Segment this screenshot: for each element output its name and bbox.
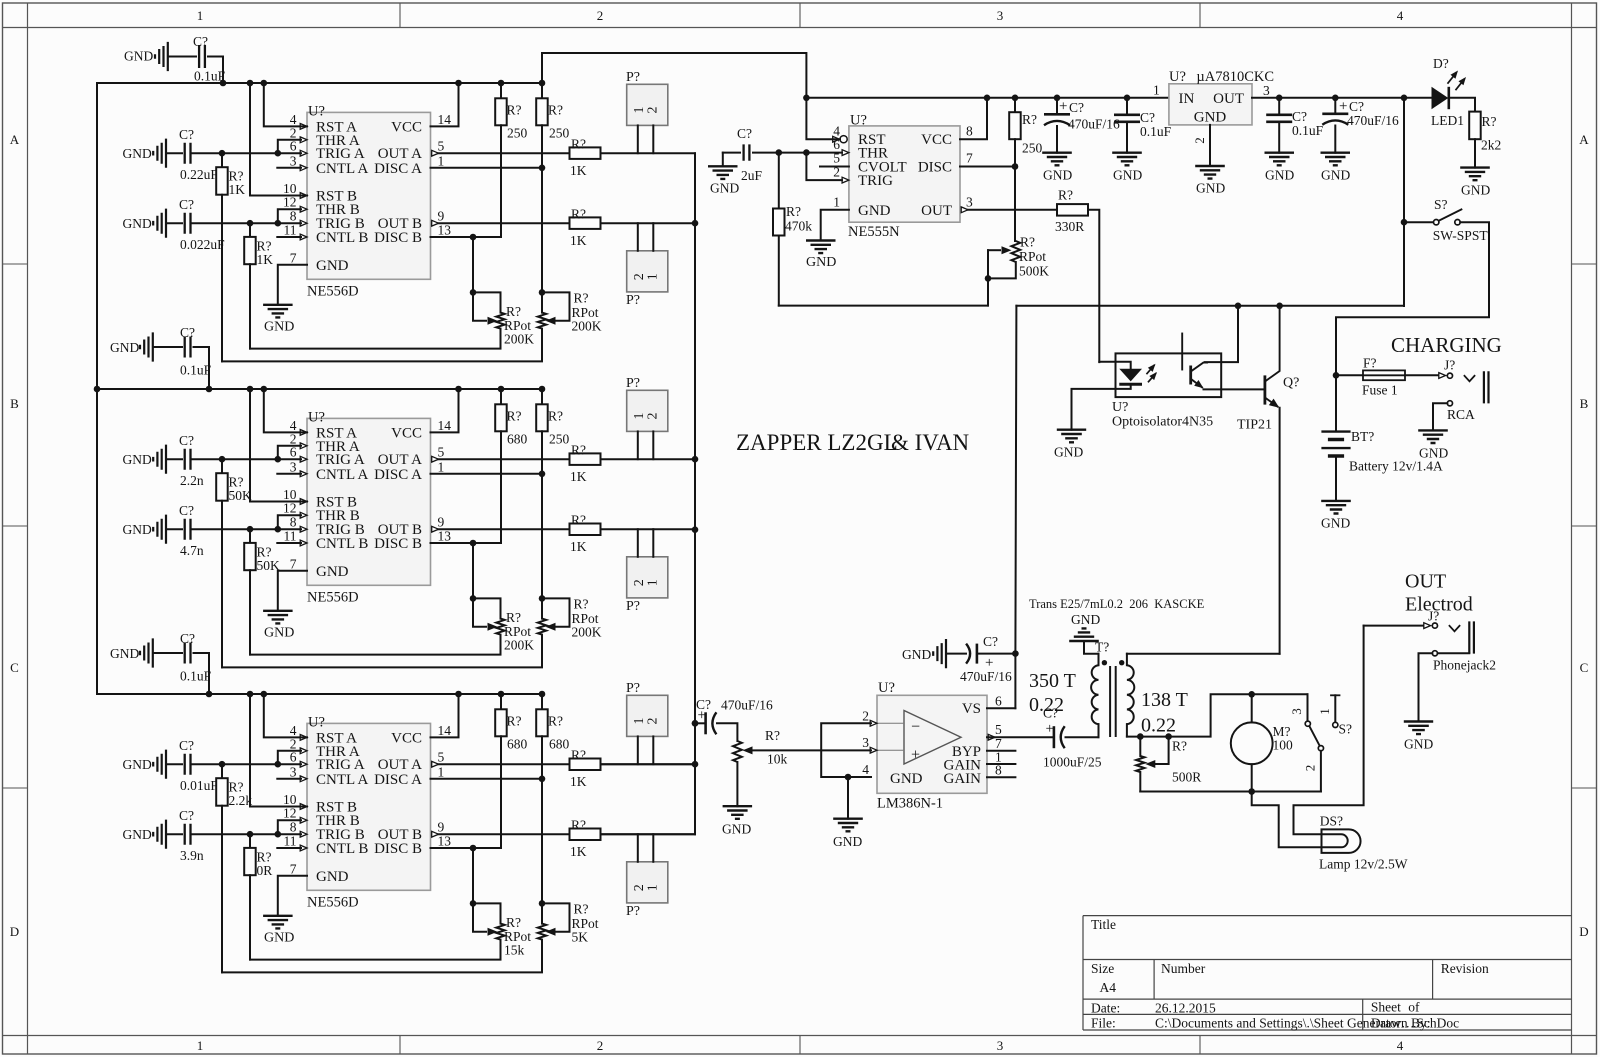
svg-text:U?: U? xyxy=(1112,400,1128,415)
svg-text:11: 11 xyxy=(284,834,297,849)
stub CNTL B (section 1) xyxy=(277,236,301,238)
svg-text:5: 5 xyxy=(438,139,445,154)
svg-text:GND: GND xyxy=(316,258,349,274)
svg-text:R?: R? xyxy=(571,818,586,833)
svg-text:138 T: 138 T xyxy=(1141,689,1188,711)
svg-text:R?: R? xyxy=(574,290,589,305)
svg-text:14: 14 xyxy=(438,112,452,127)
stub CNTL A (section 3) xyxy=(277,778,301,780)
svg-text:2.2n: 2.2n xyxy=(180,473,204,488)
resistor R? 50K from TRIG A (section 2) xyxy=(221,459,223,473)
connector P? lower (section 3) xyxy=(627,862,668,903)
left VCC trunk wire xyxy=(96,83,98,694)
wire regulator output rail xyxy=(1252,97,1432,99)
svg-text:NE556D: NE556D xyxy=(307,895,359,911)
svg-text:1: 1 xyxy=(646,579,661,586)
pot feed from DISC B (section 2) xyxy=(472,543,474,598)
svg-text:C?: C? xyxy=(983,634,998,649)
svg-text:GND: GND xyxy=(123,216,152,231)
svg-text:GND: GND xyxy=(722,822,751,837)
connector P? lower (section 2) xyxy=(627,557,668,598)
capacitor C? 470uF/16 input coupling xyxy=(692,720,699,727)
wire pot bottom to motor return xyxy=(1140,791,1321,793)
svg-text:J?: J? xyxy=(1444,358,1455,373)
wire THR A hook to TRIG A (section 2) xyxy=(278,446,301,459)
ground symbol IC (section 3) xyxy=(263,916,293,929)
wire timing net 470k to pot xyxy=(779,305,988,307)
svg-text:GAIN: GAIN xyxy=(944,771,982,787)
svg-text:8: 8 xyxy=(290,820,297,835)
svg-text:500K: 500K xyxy=(1019,264,1049,279)
wire DISC B (section 1) xyxy=(431,236,502,238)
wire secondary bottom xyxy=(1127,694,1308,736)
svg-text:Q?: Q? xyxy=(1283,376,1299,391)
svg-text:R?: R? xyxy=(574,901,589,916)
fuse F? Fuse 1 xyxy=(1333,372,1340,379)
resistor R? 2.2k from TRIG A (section 3) xyxy=(221,764,223,778)
stub CNTL A (section 1) xyxy=(277,167,301,169)
svg-text:OUT: OUT xyxy=(1213,91,1244,107)
svg-text:1: 1 xyxy=(197,8,204,23)
svg-text:1K: 1K xyxy=(570,163,587,178)
svg-text:500R: 500R xyxy=(1172,770,1201,785)
svg-text:R?: R? xyxy=(507,713,522,728)
svg-text:C?: C? xyxy=(1140,110,1155,125)
svg-text:GND: GND xyxy=(1043,168,1072,183)
wire TRIG A input (section 3) xyxy=(193,763,302,765)
svg-text:26.12.2015: 26.12.2015 xyxy=(1155,1001,1216,1016)
svg-text:NE556D: NE556D xyxy=(307,590,359,606)
svg-text:5K: 5K xyxy=(572,930,589,945)
svg-text:DISC B: DISC B xyxy=(374,841,422,857)
opamp triangle xyxy=(904,711,961,765)
opto phototransistor xyxy=(1189,366,1192,385)
svg-text:GND: GND xyxy=(264,930,294,945)
ground symbol LM386 xyxy=(833,819,863,832)
wire mix bus to OUT A3 xyxy=(601,763,696,765)
svg-text:GND: GND xyxy=(806,255,836,270)
svg-text:12: 12 xyxy=(283,195,297,210)
svg-text:R?: R? xyxy=(571,207,586,222)
wire switch to charger xyxy=(1336,222,1489,375)
svg-text:11: 11 xyxy=(284,529,297,544)
wire DISC A (section 3) xyxy=(431,778,543,780)
svg-text:680: 680 xyxy=(507,431,528,446)
svg-text:GND: GND xyxy=(1404,737,1433,752)
svg-text:VCC: VCC xyxy=(391,119,422,135)
svg-text:GND: GND xyxy=(110,340,139,355)
transformer secondary winding 138T xyxy=(1126,654,1128,666)
svg-text:Size: Size xyxy=(1091,961,1114,976)
svg-text:2: 2 xyxy=(646,107,661,114)
potentiometer R? RPot 200K (section 1) xyxy=(473,292,501,312)
svg-text:12: 12 xyxy=(283,806,297,821)
wire DISC A (section 1) xyxy=(431,167,543,169)
RCA sleeve contact to GND xyxy=(1447,401,1452,406)
wire LM386 VS pin 6 xyxy=(987,707,1015,709)
svg-text:VCC: VCC xyxy=(391,425,422,441)
resistor R? 1K on OUT A (section 2) xyxy=(570,453,601,465)
svg-text:GND: GND xyxy=(902,647,931,662)
svg-text:GND: GND xyxy=(124,49,153,64)
lamp DS? 12v/2.5W xyxy=(1322,829,1361,853)
svg-text:7: 7 xyxy=(290,250,297,265)
svg-text:Lamp 12v/2.5W: Lamp 12v/2.5W xyxy=(1319,857,1408,872)
svg-text:2uF: 2uF xyxy=(741,168,763,183)
connector P? upper (section 3) xyxy=(627,695,668,736)
ground symbol battery xyxy=(1321,501,1351,514)
svg-text:B: B xyxy=(10,396,19,411)
potentiometer R? RPot 200K (section 2) xyxy=(542,598,570,626)
capacitor C? 470uF/16 NE555 rail xyxy=(1056,98,1058,113)
svg-text:C?: C? xyxy=(179,197,194,212)
svg-text:TRIG: TRIG xyxy=(858,173,893,189)
svg-text:9: 9 xyxy=(438,209,445,224)
svg-text:1K: 1K xyxy=(570,774,587,789)
svg-text:GND: GND xyxy=(1461,183,1490,198)
svg-text:10k: 10k xyxy=(767,752,788,767)
svg-text:C?: C? xyxy=(179,127,194,142)
svg-text:R?: R? xyxy=(548,713,563,728)
wire DISC B (section 3) xyxy=(431,847,502,849)
svg-text:0.1uF: 0.1uF xyxy=(1140,124,1172,139)
wire OUT A (section 3) xyxy=(439,763,570,765)
wire VCC pin 8 xyxy=(960,98,987,139)
svg-text:8: 8 xyxy=(966,124,973,139)
ground symbol IC (section 2) xyxy=(263,611,293,624)
svg-text:C: C xyxy=(10,660,19,675)
svg-text:R?: R? xyxy=(1482,114,1497,129)
connector P? upper pins (section 3) xyxy=(637,736,639,764)
svg-text:S?: S? xyxy=(1434,197,1448,212)
svg-text:GND: GND xyxy=(1054,445,1083,460)
svg-text:GND: GND xyxy=(123,452,152,467)
svg-text:3: 3 xyxy=(290,153,297,168)
svg-text:250: 250 xyxy=(549,431,570,446)
svg-text:Number: Number xyxy=(1161,961,1206,976)
svg-text:470k: 470k xyxy=(785,219,812,234)
svg-text:2: 2 xyxy=(1303,765,1318,772)
svg-text:8: 8 xyxy=(290,209,297,224)
svg-text:BT?: BT? xyxy=(1351,429,1374,444)
svg-text:R?: R? xyxy=(571,748,586,763)
svg-text:.SchDoc: .SchDoc xyxy=(1413,1016,1459,1031)
svg-text:GND: GND xyxy=(316,869,349,885)
wire mix bus corner to OUT B3 xyxy=(601,833,696,835)
resistor R? 680 pullup (section 3) xyxy=(541,694,543,709)
wire RST to rail xyxy=(806,98,840,139)
svg-text:Revision: Revision xyxy=(1441,961,1489,976)
wire 330R to opto LED xyxy=(1090,210,1100,362)
svg-text:GND: GND xyxy=(1265,168,1294,183)
svg-text:14: 14 xyxy=(438,723,452,738)
svg-text:1K: 1K xyxy=(570,539,587,554)
svg-text:C?: C? xyxy=(696,697,711,712)
wire TRIG A input (section 2) xyxy=(193,458,302,460)
capacitor C? 0.1uF top decoupler xyxy=(155,42,168,71)
svg-text:Date:: Date: xyxy=(1091,1001,1120,1016)
wire NE555 supply rail xyxy=(806,97,1169,99)
svg-text:CNTL A: CNTL A xyxy=(316,161,369,177)
svg-text:2k2: 2k2 xyxy=(1481,138,1501,153)
svg-text:1: 1 xyxy=(197,1038,204,1053)
pot feed from DISC A (section 1) xyxy=(541,168,543,293)
connector P? upper (section 1) xyxy=(627,84,668,125)
svg-text:330R: 330R xyxy=(1055,219,1084,234)
svg-text:of: of xyxy=(1408,1000,1420,1015)
svg-text:250: 250 xyxy=(549,125,570,140)
svg-text:4: 4 xyxy=(1397,8,1404,23)
svg-text:R?: R? xyxy=(548,408,563,423)
svg-text:C?: C? xyxy=(179,503,194,518)
switch S? motor xyxy=(1307,694,1309,721)
svg-text:+: + xyxy=(911,747,920,764)
wire 0.1uF to rail 1 xyxy=(208,57,223,84)
svg-text:NE555N: NE555N xyxy=(848,224,900,240)
svg-text:50K: 50K xyxy=(229,488,253,503)
svg-text:0.1uF: 0.1uF xyxy=(180,669,212,684)
svg-text:3: 3 xyxy=(862,735,869,750)
VCC bus rail (section 2) xyxy=(97,388,542,390)
svg-text:C?: C? xyxy=(1349,99,1364,114)
wire RST B to VCC rail (section 3) xyxy=(250,694,307,807)
wire TRIG B input (section 2) xyxy=(193,528,302,530)
stub CNTL B (section 2) xyxy=(277,542,301,544)
svg-text:DISC B: DISC B xyxy=(374,536,422,552)
svg-text:Sheet: Sheet xyxy=(1371,1000,1401,1015)
svg-text:Phonejack2: Phonejack2 xyxy=(1433,658,1496,673)
svg-text:Fuse 1: Fuse 1 xyxy=(1362,383,1398,398)
svg-text:R?: R? xyxy=(1058,188,1073,203)
wire TRIG B input (section 3) xyxy=(193,833,302,835)
svg-text:GND: GND xyxy=(1321,168,1350,183)
svg-text:VCC: VCC xyxy=(921,132,952,148)
resistor R? 1K from TRIG A (section 1) xyxy=(221,153,223,167)
svg-text:6: 6 xyxy=(290,139,297,154)
svg-text:3: 3 xyxy=(997,1038,1004,1053)
wire VCC pin 14 (section 2) xyxy=(431,389,459,432)
svg-text:A4: A4 xyxy=(1100,980,1117,995)
wire THR B hook to TRIG B (section 2) xyxy=(278,515,301,529)
opto LED xyxy=(1099,362,1130,369)
svg-text:7: 7 xyxy=(290,861,297,876)
svg-text:D: D xyxy=(10,924,19,939)
IC U? NE556D (section 1) xyxy=(307,112,431,279)
svg-text:C?: C? xyxy=(180,325,195,340)
capacitor C? 3.9n on TRIG B (section 3) xyxy=(153,820,166,849)
ground symbol IC (section 1) xyxy=(263,305,293,318)
wire THR B hook to TRIG B (section 1) xyxy=(278,209,301,223)
svg-text:0.1uF: 0.1uF xyxy=(180,363,212,378)
svg-text:680: 680 xyxy=(549,736,570,751)
resistor R? 250 pullup (section 2) xyxy=(541,389,543,404)
motor M? 100 xyxy=(1231,722,1273,764)
svg-text:NE556D: NE556D xyxy=(307,284,359,300)
wire mid cap 1 to rail 2 xyxy=(194,347,210,389)
title block xyxy=(1083,916,1572,1030)
IC U? LM386N-1 xyxy=(877,695,987,793)
wire OUT A (section 1) xyxy=(439,152,570,154)
resistor R? 470k xyxy=(778,153,780,209)
capacitor C? 470uF/16 at regulator out xyxy=(1334,98,1336,112)
capacitor C? 2uF xyxy=(723,152,740,154)
wire inverting input tied to GND pin 4 xyxy=(821,723,871,777)
wire OUT B (section 2) xyxy=(439,528,570,530)
svg-text:470uF/16: 470uF/16 xyxy=(960,669,1012,684)
svg-text:2: 2 xyxy=(1192,137,1207,144)
connector P? upper (section 2) xyxy=(627,390,668,431)
capacitor C? 0.022uF on TRIG B (section 1) xyxy=(153,209,166,238)
svg-text:P?: P? xyxy=(626,293,640,308)
svg-text:R?: R? xyxy=(548,102,563,117)
potentiometer R? RPot 200K (section 1) xyxy=(542,292,570,320)
svg-text:GND: GND xyxy=(1194,110,1227,126)
svg-text:P?: P? xyxy=(626,376,640,391)
svg-text:R?: R? xyxy=(506,610,521,625)
svg-text:C?: C? xyxy=(179,433,194,448)
connector P? lower (section 1) xyxy=(627,251,668,292)
svg-text:U?: U? xyxy=(850,113,867,129)
pot feed from DISC A (section 2) xyxy=(541,474,543,599)
svg-text:R?: R? xyxy=(507,102,522,117)
svg-text:4.7n: 4.7n xyxy=(180,543,204,558)
wire mid cap 2 to rail 3 xyxy=(194,653,210,694)
svg-text:15k: 15k xyxy=(504,943,525,958)
svg-text:200K: 200K xyxy=(572,625,602,640)
svg-text:C?: C? xyxy=(1292,109,1307,124)
connector P? upper pins (section 1) xyxy=(637,125,639,153)
potentiometer R? RPot 200K (section 2) xyxy=(473,598,501,618)
svg-text:C: C xyxy=(1580,660,1589,675)
NE555 RST bubble xyxy=(833,136,840,142)
svg-text:RCA: RCA xyxy=(1447,407,1475,422)
potentiometer R? RPot 15k (section 3) xyxy=(473,903,501,923)
svg-text:13: 13 xyxy=(438,223,452,238)
transistor Q? TIP21 xyxy=(1264,375,1267,404)
svg-text:TIP21: TIP21 xyxy=(1237,418,1272,433)
svg-text:1: 1 xyxy=(1153,82,1160,97)
svg-text:350 T: 350 T xyxy=(1029,670,1076,692)
svg-text:S?: S? xyxy=(1339,722,1353,737)
wire RST B to VCC rail (section 2) xyxy=(250,389,307,502)
potentiometer R? 500R xyxy=(1139,737,1141,756)
optoisolator U? 4N35 xyxy=(1116,353,1222,397)
svg-text:VCC: VCC xyxy=(391,730,422,746)
svg-text:File:: File: xyxy=(1091,1016,1116,1031)
svg-text:−: − xyxy=(911,719,920,736)
wire GND pin 7 (section 1) xyxy=(278,265,307,305)
svg-text:C?: C? xyxy=(737,126,752,141)
wire RST A to VCC rail (section 3) xyxy=(264,694,307,737)
wire THR B hook to TRIG B (section 3) xyxy=(278,820,301,834)
svg-text:T?: T? xyxy=(1095,640,1109,655)
svg-text:0.022uF: 0.022uF xyxy=(180,237,225,252)
VCC bus rail (section 1) xyxy=(97,82,542,84)
svg-text:GND: GND xyxy=(833,834,862,849)
svg-text:LM386N-1: LM386N-1 xyxy=(877,796,943,812)
svg-text:C?: C? xyxy=(1069,100,1084,115)
svg-text:R?: R? xyxy=(571,137,586,152)
stub GAIN pin 1 xyxy=(987,763,1015,765)
wire OUT B (section 1) xyxy=(439,222,570,224)
wire TIP21 emitter down xyxy=(1279,408,1281,654)
svg-text:1: 1 xyxy=(833,194,840,209)
svg-text:A: A xyxy=(1579,132,1589,147)
svg-text:4: 4 xyxy=(862,762,869,777)
svg-text:U?: U? xyxy=(1169,69,1186,85)
svg-text:470uF/16: 470uF/16 xyxy=(721,698,773,713)
svg-text:U?: U? xyxy=(308,104,325,120)
resistor R? 250 pullup (section 1) xyxy=(541,83,543,98)
transformer primary winding 350T xyxy=(1098,654,1100,666)
svg-text:OUT: OUT xyxy=(1405,571,1446,593)
wire VCC pin 14 (section 1) xyxy=(431,83,459,126)
resistor R? 680 pullup (section 2) xyxy=(500,389,502,404)
resistor R? 250 pullup (section 1) xyxy=(500,83,502,98)
wire DISC A (section 2) xyxy=(431,473,543,475)
svg-text:GND: GND xyxy=(123,146,152,161)
svg-text:DISC B: DISC B xyxy=(374,230,422,246)
wire RST A to VCC rail (section 1) xyxy=(264,83,307,126)
svg-text:3.9n: 3.9n xyxy=(180,848,204,863)
stub CNTL B (section 3) xyxy=(277,847,301,849)
resistor R? 1K on OUT B (section 2) xyxy=(570,524,601,536)
wire THR input xyxy=(779,152,842,154)
resistor R? 0R from TRIG B (section 3) xyxy=(249,834,251,848)
resistor R? 2k2 xyxy=(1450,98,1475,112)
svg-text:OUT A: OUT A xyxy=(378,757,422,773)
svg-text:GND: GND xyxy=(1113,168,1142,183)
svg-text:0.22: 0.22 xyxy=(1141,715,1176,737)
svg-text:A: A xyxy=(10,132,20,147)
svg-text:3: 3 xyxy=(290,764,297,779)
svg-text:GND: GND xyxy=(123,522,152,537)
wire GND pin 7 (section 3) xyxy=(278,876,307,916)
svg-text:3: 3 xyxy=(966,194,973,209)
svg-text:ZAPPER LZ2GL: ZAPPER LZ2GL xyxy=(736,430,898,455)
svg-text:6: 6 xyxy=(995,693,1002,708)
svg-text:R?: R? xyxy=(506,915,521,930)
resistor R? 330R xyxy=(1057,204,1088,216)
svg-text:C?: C? xyxy=(179,738,194,753)
svg-text:12: 12 xyxy=(283,501,297,516)
transformer core xyxy=(1110,666,1116,737)
svg-text:U?: U? xyxy=(878,680,895,696)
svg-text:CNTL B: CNTL B xyxy=(316,230,368,246)
svg-text:DISC A: DISC A xyxy=(374,467,422,483)
ground symbol 2k2 xyxy=(1460,168,1490,181)
ground symbol NE555 xyxy=(806,241,836,254)
battery BT? 12v/1.4A xyxy=(1335,377,1337,431)
switch S? SW-SPST xyxy=(1404,221,1433,223)
svg-text:9: 9 xyxy=(438,515,445,530)
wire electrode jack to lamp xyxy=(1294,626,1364,835)
capacitor C? 0.1uF at regulator out xyxy=(1278,98,1280,113)
capacitor C? 0.1uF NE555 rail xyxy=(1126,98,1128,113)
wire GND pin 7 (section 2) xyxy=(278,571,307,611)
svg-text:250: 250 xyxy=(507,125,528,140)
svg-text:GND: GND xyxy=(890,771,923,787)
svg-text:GND: GND xyxy=(710,181,739,196)
svg-text:1: 1 xyxy=(438,459,445,474)
ground symbol 10k pot xyxy=(723,806,753,819)
ground symbol opto xyxy=(1057,430,1086,443)
svg-text:GND: GND xyxy=(264,319,294,334)
svg-text:GND: GND xyxy=(316,564,349,580)
svg-text:CNTL A: CNTL A xyxy=(316,772,369,788)
svg-text:11: 11 xyxy=(284,223,297,238)
resistor R? 50K from TRIG B (section 2) xyxy=(249,529,251,543)
